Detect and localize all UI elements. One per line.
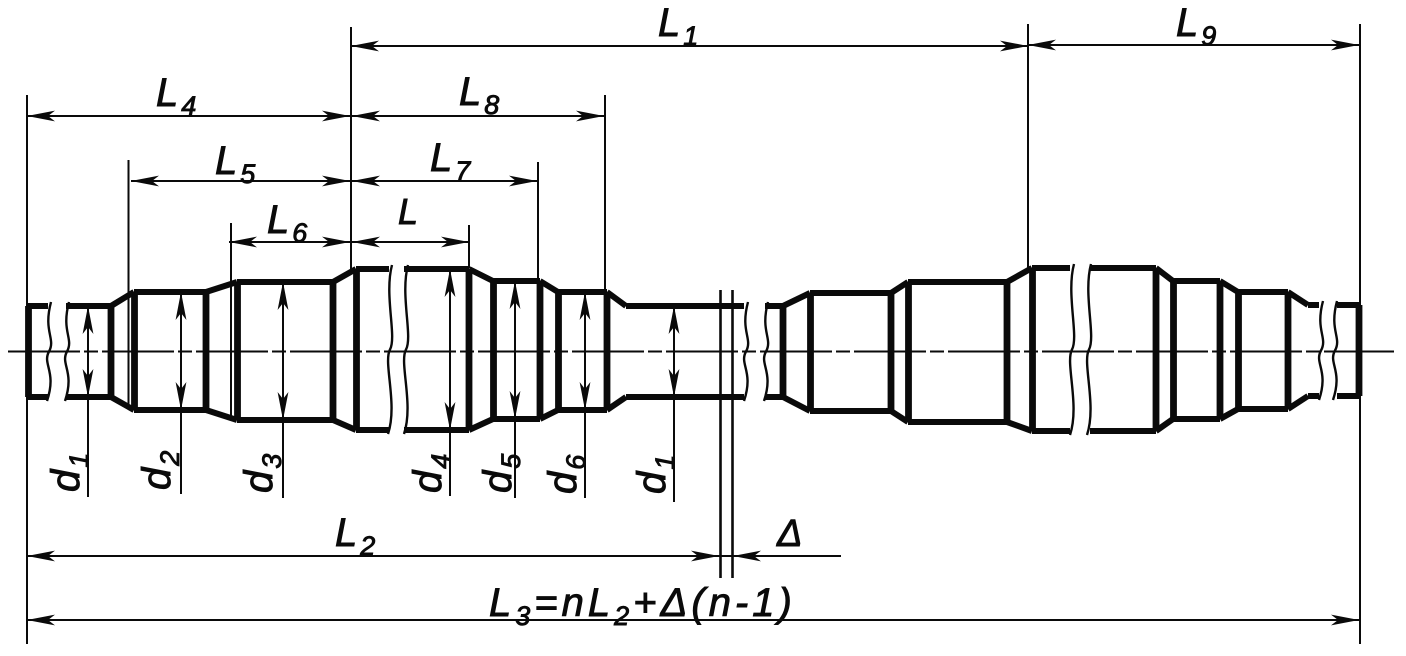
svg-text:L9: L9 [1176, 1, 1216, 51]
rod2 taper A-B top [891, 282, 908, 293]
svg-text:L8: L8 [459, 70, 499, 120]
rod2 taper C-D top [1156, 268, 1173, 281]
shaft rod1 thin section d1 bottom edge [27, 394, 48, 400]
rod2 taper A-B bottom [891, 411, 908, 422]
extension line L1-L9 junction x=1028 [1027, 24, 1029, 268]
rod2 section D right edge [1217, 281, 1224, 419]
dimension delta line [719, 555, 841, 557]
dimension d1 left line with arrows [87, 306, 89, 497]
dimension L7 line [352, 180, 537, 182]
svg-text:d2: d2 [135, 451, 185, 490]
svg-text:d4: d4 [406, 454, 456, 493]
dimension d5 line with arrows [514, 281, 516, 498]
rod2 section A top edge [810, 290, 891, 296]
svg-text:L6: L6 [267, 198, 308, 248]
taper d1-d2 top [111, 292, 134, 306]
rod2 right thin section top edge [1308, 302, 1319, 308]
rod2 section E left edge [1235, 292, 1242, 409]
shaft d5 bottom edge [493, 416, 540, 422]
svg-text:L1: L1 [658, 1, 698, 51]
svg-text:L5: L5 [215, 139, 256, 189]
extension line L8 right x=605 [604, 95, 606, 292]
shaft rod1 thin section d1 top edge [27, 303, 48, 309]
svg-text:L2: L2 [335, 511, 375, 561]
rod2 section C top edge [1032, 265, 1070, 271]
shaft d2 bottom edge [134, 407, 206, 413]
dimension d3 line with arrows [282, 282, 284, 498]
dimension L line [352, 241, 469, 243]
rod2 section B left edge [905, 282, 912, 422]
svg-text:L7: L7 [430, 136, 471, 186]
shaft rod1 right thin section bottom edge [626, 394, 744, 400]
shaft rod1 left end face [25, 306, 32, 397]
taper d3-d4 bottom [333, 420, 356, 430]
rod2 section C right edge [1153, 268, 1160, 431]
dimension L2 line [27, 555, 719, 557]
shaft d3 cylinder left edge [234, 282, 241, 420]
shaft d4 top edge [356, 266, 389, 272]
taper d5-d6 bottom [540, 410, 558, 419]
dimension d2 line with arrows [180, 292, 182, 494]
break wave lines between rod1 and rod2 [744, 302, 748, 401]
taper d5-d6 top [540, 281, 558, 292]
taper d6-thin top [607, 292, 626, 306]
svg-text:d6: d6 [541, 454, 591, 494]
shaft d4 cylinder left edge [353, 269, 360, 430]
rod2 section D top edge [1173, 278, 1220, 284]
svg-text:L: L [398, 191, 418, 232]
shaft d2 cylinder right edge [203, 292, 210, 410]
taper d2-d3 top [206, 282, 237, 292]
svg-text:d1: d1 [44, 453, 94, 492]
taper d6-thin bottom [607, 397, 626, 410]
extension line L right x=469 [468, 225, 470, 268]
rod2 section A right edge [888, 293, 895, 411]
dimension L5 line [131, 180, 350, 182]
break wave lines on rod2 section C [1070, 264, 1074, 435]
rod2 section A bottom edge [810, 408, 891, 414]
rod2 right end face at cut [1356, 305, 1363, 396]
shaft rod1 right thin section top edge [626, 303, 744, 309]
rod2 section D bottom edge [1173, 416, 1220, 422]
extension line L7 right x=538 [537, 162, 539, 281]
shaft d5 cylinder left edge [490, 281, 497, 419]
shaft d4 bottom edge [356, 427, 389, 433]
svg-text:L4: L4 [156, 71, 196, 121]
rod2 right thin section bottom edge [1308, 393, 1319, 399]
taper d4-d5 bottom [469, 419, 493, 430]
rod2 section B right edge [1004, 282, 1011, 422]
rod2 taper D-E top [1220, 281, 1238, 292]
rod2 section C left edge [1029, 268, 1036, 431]
rod2 taper C-D bottom [1156, 419, 1173, 431]
rod2 taper E-thin bottom [1288, 396, 1308, 409]
extension line right datum x=1360 [1359, 24, 1361, 644]
shaft step face at end of d1 section [108, 306, 115, 397]
break wave lines on rod2 right thin section [1319, 301, 1323, 400]
rod2 section B top edge [908, 279, 1007, 285]
svg-text:L3=nL2+Δ(n-1): L3=nL2+Δ(n-1) [489, 581, 796, 631]
rod2 taper D-E bottom [1220, 409, 1238, 419]
rod2 taper E-thin top [1288, 292, 1308, 305]
dimension d6 line with arrows [584, 292, 586, 498]
shaft d6 bottom edge [558, 407, 607, 413]
rod2 taper thin-A top [783, 293, 810, 306]
rod2 taper B-C top [1007, 268, 1032, 282]
dimension L6 line [229, 241, 350, 243]
rod2 section E bottom edge [1238, 406, 1288, 412]
rod2 section C bottom edge [1032, 428, 1070, 434]
shaft d3 top edge [237, 279, 333, 285]
shaft d4 cylinder right edge [466, 269, 473, 430]
extension line central datum x=351 [350, 27, 352, 269]
rod2 section A left edge [807, 293, 814, 411]
shaft d5 top edge [493, 278, 540, 284]
rod2 section E top edge [1238, 289, 1288, 295]
rod2 taper thin-A bottom [783, 397, 810, 411]
shaft d6 top edge [558, 289, 607, 295]
taper d2-d3 bottom [206, 410, 237, 420]
shaft d6 cylinder right edge [604, 292, 611, 410]
shaft d3 bottom edge [237, 417, 333, 423]
rod2 section B bottom edge [908, 419, 1007, 425]
extension line left datum x=27 [26, 95, 28, 644]
joint face line delta left [719, 290, 722, 578]
shaft rod2 step face [780, 306, 787, 397]
break wave lines on thin section d1 [47, 302, 51, 401]
shaft d3 cylinder right edge [330, 282, 337, 420]
dimension d4 line with arrows [449, 269, 451, 496]
extension line L6 left x=231 [230, 223, 232, 418]
svg-text:d3: d3 [237, 454, 287, 493]
svg-text:Δ: Δ [776, 513, 803, 555]
dimension L9 line [1028, 44, 1359, 46]
dimension d1 right line with arrows [673, 306, 675, 502]
shaft d2 top edge [134, 289, 206, 295]
dimension L8 line [352, 115, 604, 117]
dimension L3 line [27, 619, 1359, 621]
rod2 section E right edge [1285, 292, 1292, 409]
rod2 section D left edge [1170, 281, 1177, 419]
svg-text:d5: d5 [476, 453, 526, 493]
shaft d6 cylinder left edge [555, 292, 562, 410]
dimension L1 line [351, 45, 1028, 47]
taper d1-d2 bottom [111, 397, 134, 410]
break wave lines on d4 section [388, 265, 392, 434]
extension line L5 left x=130 [128, 160, 130, 408]
shaft d2 cylinder left edge [131, 292, 138, 410]
taper d4-d5 top [469, 269, 493, 281]
shaft d5 cylinder right edge [537, 281, 544, 419]
taper d3-d4 top [333, 269, 356, 282]
joint face line delta right [731, 290, 734, 578]
dimension L4 line [27, 115, 350, 117]
svg-text:d1: d1 [630, 455, 680, 494]
rod2 taper B-C bottom [1007, 422, 1032, 431]
wire centerline of shaft [8, 351, 1394, 353]
